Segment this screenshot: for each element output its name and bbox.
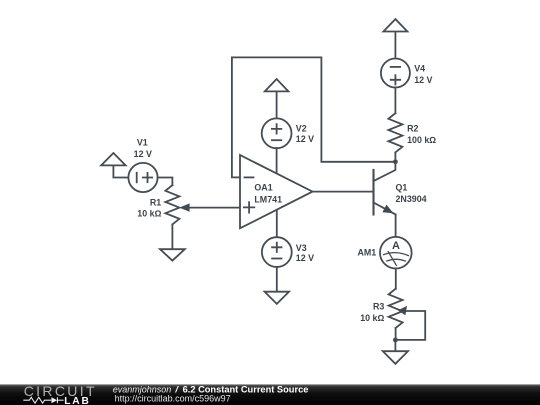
svg-text:A: A xyxy=(392,240,400,252)
svg-text:LAB: LAB xyxy=(64,396,89,405)
wire R3 to junction xyxy=(395,328,397,340)
R1 wiper arrow xyxy=(179,203,240,211)
wire R2 to collector node xyxy=(394,152,396,161)
label R1 value xyxy=(137,197,161,218)
CircuitLab logo text xyxy=(24,383,95,405)
svg-text:12 V: 12 V xyxy=(414,75,432,85)
svg-text:V1: V1 xyxy=(137,138,148,148)
power arrow (V1 supply) xyxy=(101,153,128,178)
R3 wiper arrow and short xyxy=(395,306,425,340)
svg-text:Q1: Q1 xyxy=(396,182,408,192)
svg-text:V4: V4 xyxy=(414,64,425,74)
feedback wire xyxy=(232,57,396,177)
footer bar xyxy=(0,384,540,405)
wire AM1 to R3 xyxy=(395,269,397,289)
svg-text:2N3904: 2N3904 xyxy=(396,194,427,204)
svg-text:OA1: OA1 xyxy=(254,182,272,192)
op-amp OA1 xyxy=(240,155,313,228)
svg-text:100 kΩ: 100 kΩ xyxy=(407,135,436,145)
svg-text:R3: R3 xyxy=(373,301,384,311)
wire V1 to R1 xyxy=(158,178,173,186)
svg-text:AM1: AM1 xyxy=(357,248,376,258)
voltage source V4 xyxy=(381,59,410,88)
wire to ground xyxy=(394,340,396,351)
svg-text:10 kΩ: 10 kΩ xyxy=(360,313,384,323)
wire R1 to ground xyxy=(171,224,173,249)
ground (under R3) xyxy=(383,351,408,364)
voltage source V2 xyxy=(262,118,292,148)
svg-text:V2: V2 xyxy=(296,123,307,133)
transistor Q1 xyxy=(374,162,396,215)
svg-text:R1: R1 xyxy=(150,197,161,207)
svg-text:12 V: 12 V xyxy=(296,253,314,263)
resistor R3 (potentiometer) xyxy=(389,289,403,328)
wire V4 to R2 xyxy=(394,88,396,114)
logo resistor + diode glyph xyxy=(23,397,63,403)
svg-text:LM741: LM741 xyxy=(254,194,282,204)
svg-text:http://circuitlab.com/c596w97: http://circuitlab.com/c596w97 xyxy=(115,394,231,404)
ground (under V3) xyxy=(265,292,289,304)
svg-text:V3: V3 xyxy=(296,243,307,253)
power arrow (V2 supply) xyxy=(265,79,289,118)
wire op-amp output to Q1 base xyxy=(313,191,374,193)
wire V3 to ground xyxy=(276,267,278,292)
resistor R2 xyxy=(388,113,402,152)
label V2 value xyxy=(296,123,314,144)
wire V2 to op-amp xyxy=(276,148,278,173)
voltage source V3 xyxy=(262,237,292,267)
resistor R1 (potentiometer) xyxy=(165,185,179,224)
voltage source V1 xyxy=(128,163,157,192)
svg-text:12 V: 12 V xyxy=(134,149,152,159)
node junction (collector) xyxy=(393,159,398,164)
ground (under R1) xyxy=(160,249,185,260)
power arrow (V4 supply) xyxy=(383,19,407,58)
svg-text:10 kΩ: 10 kΩ xyxy=(137,208,161,218)
svg-text:R2: R2 xyxy=(407,124,418,134)
ammeter AM1 xyxy=(380,237,412,269)
wire op-amp to V3 xyxy=(276,210,278,237)
wire Q1 emitter to AM1 xyxy=(395,215,397,238)
label V1 value xyxy=(134,138,152,159)
svg-text:12 V: 12 V xyxy=(296,134,314,144)
node junction (R3 bottom) xyxy=(393,338,398,343)
